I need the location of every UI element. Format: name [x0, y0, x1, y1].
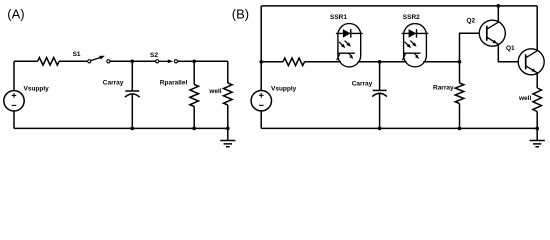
svg-text:Rarray: Rarray: [433, 84, 454, 91]
svg-text:well: well: [208, 88, 221, 95]
svg-text:Q1: Q1: [506, 45, 515, 52]
svg-text:S2: S2: [150, 52, 158, 59]
svg-text:Vsupply: Vsupply: [24, 86, 50, 93]
svg-text:well: well: [518, 95, 531, 102]
svg-text:Vsupply: Vsupply: [271, 86, 297, 93]
svg-text:SSR1: SSR1: [330, 14, 347, 21]
svg-text:Carray: Carray: [103, 79, 124, 86]
svg-text:Rparallel: Rparallel: [160, 79, 188, 86]
svg-text:S1: S1: [73, 51, 81, 58]
svg-text:Q2: Q2: [467, 18, 476, 25]
svg-text:(B): (B): [232, 6, 249, 21]
svg-text:Carray: Carray: [352, 81, 373, 88]
svg-text:(A): (A): [7, 6, 24, 21]
svg-text:SSR2: SSR2: [403, 14, 420, 21]
